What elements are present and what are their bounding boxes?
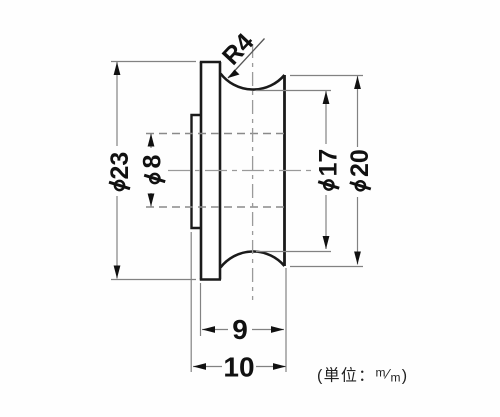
right edge of part (phi20 rim) — [283, 75, 286, 266]
phi23 arrow bottom — [114, 266, 121, 279]
phi20 extension line top — [290, 75, 363, 77]
hub boss outline (left small rectangle) — [192, 115, 201, 228]
horizontal center line (axis) — [168, 170, 312, 172]
phi17 arrow bottom — [323, 236, 330, 249]
phi23 label — [106, 152, 134, 190]
dim 9 extension line left — [200, 283, 202, 336]
dim 10 extension line left — [190, 232, 192, 372]
svg-text:10: 10 — [223, 352, 254, 383]
flange left edge — [200, 62, 203, 280]
phi17 arrow top — [323, 91, 330, 104]
dim 10 arrow right — [273, 363, 286, 370]
svg-text:17: 17 — [315, 149, 343, 177]
phi23 dimension line — [116, 62, 118, 146]
phi20 arrow top — [354, 76, 361, 89]
phi8 arrow top — [148, 134, 155, 147]
R4 leader arrow — [228, 70, 240, 79]
svg-text:23: 23 — [106, 152, 134, 180]
phi23 extension line bottom — [111, 279, 196, 281]
phi20 extension line bottom — [290, 266, 363, 268]
groove arc bottom (R4) — [221, 251, 285, 267]
flange right edge — [219, 62, 222, 280]
svg-text:20: 20 — [346, 149, 374, 177]
phi23 arrow top — [114, 62, 121, 75]
phi20 dimension line — [357, 76, 359, 147]
phi8 dimension line — [150, 134, 152, 149]
vertical center line — [252, 44, 254, 300]
dim 9/10 extension line right — [285, 268, 287, 372]
dim 9 arrow right — [271, 326, 284, 333]
dim 10 dimension line — [193, 366, 222, 368]
dim 9 arrow left — [202, 326, 215, 333]
svg-text:9: 9 — [232, 314, 248, 345]
phi17 extension line top — [256, 90, 331, 92]
phi20 arrow bottom — [354, 252, 361, 265]
dim 10 arrow left — [193, 363, 206, 370]
R4 leader line — [228, 39, 265, 79]
flange top edge — [200, 61, 221, 64]
phi20 label — [346, 149, 374, 190]
phi17 dimension line — [325, 91, 327, 144]
phi8 arrow bottom — [148, 194, 155, 207]
hidden bore line top (phi8 dashed) — [146, 133, 284, 135]
groove arc top (R4) — [221, 74, 285, 90]
dim 9 dimension line — [202, 329, 228, 331]
svg-text:8: 8 — [139, 155, 167, 169]
hidden bore line bottom (phi8 dashed) — [146, 206, 284, 208]
phi8 label — [139, 155, 167, 184]
phi17 label — [315, 149, 343, 190]
phi23 extension line top — [111, 61, 196, 63]
flange bottom edge — [200, 278, 221, 281]
phi17 extension line bottom — [256, 251, 331, 253]
